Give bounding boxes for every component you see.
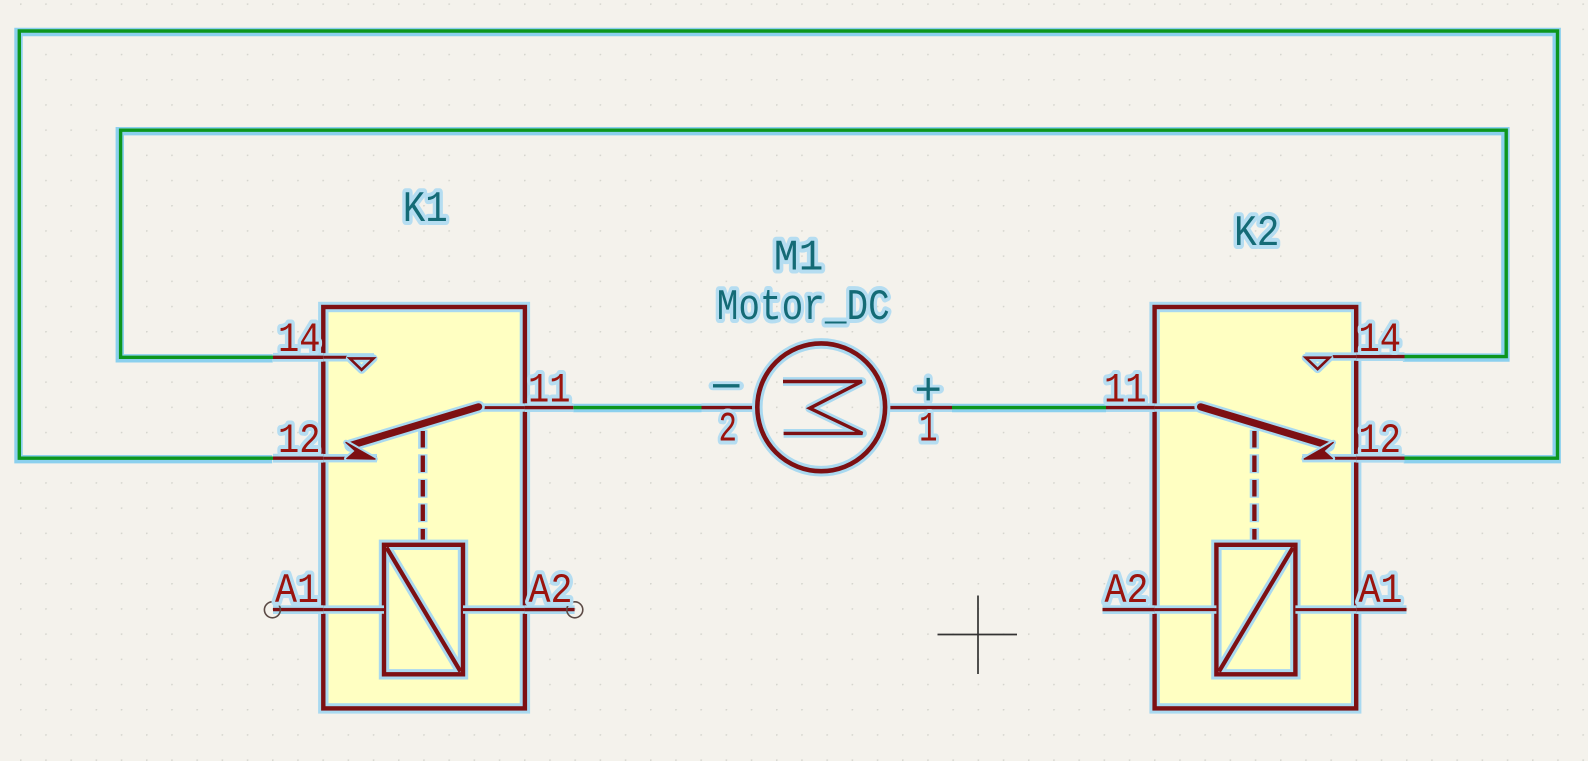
wire outer loop: K1 pin12 - left side - top - right side - K2 pin12 <box>19 31 1557 458</box>
relay K1 <box>264 185 582 709</box>
svg-text:14: 14 <box>1359 316 1402 364</box>
K2 pin A2 stub <box>1103 605 1155 614</box>
svg-text:M1: M1 <box>774 234 824 284</box>
K1 chevron contact mark <box>350 358 374 369</box>
wire K1 pin11 to motor pin2 <box>573 406 701 409</box>
svg-text:K1: K1 <box>403 185 448 235</box>
K1 mechanical link dashed line <box>418 430 427 545</box>
M1 minus sign <box>713 381 740 390</box>
K1 body <box>323 307 525 708</box>
svg-text:11: 11 <box>1104 367 1147 415</box>
svg-text:A1: A1 <box>1359 567 1403 615</box>
K2 mechanical link dashed line <box>1250 430 1259 545</box>
K1 unconnected pin circle A2 <box>567 602 583 618</box>
K1 pin 11 inner line <box>479 403 525 411</box>
K2 pin 14 stub <box>1356 352 1404 361</box>
K2 pin 12 stub <box>1356 454 1404 463</box>
K1 A-row inner lines <box>323 605 525 613</box>
M1 body circle <box>757 343 885 471</box>
wire motor pin1 to K2 pin11 <box>952 406 1106 409</box>
svg-text:14: 14 <box>278 316 321 364</box>
K2 chevron contact mark <box>1306 358 1330 369</box>
K1 pin 14 inner line <box>323 353 374 361</box>
wire inner loop halo <box>120 131 1506 358</box>
K1 pin 12 inner line <box>323 454 377 462</box>
K2 pin 14 inner line <box>1305 352 1356 360</box>
K2 switch arrowhead <box>1304 443 1333 460</box>
wire outer loop halo <box>19 32 1557 459</box>
svg-text:1: 1 <box>919 406 938 454</box>
K1 pin 12 stub <box>273 454 323 463</box>
K2 coil <box>1216 545 1295 675</box>
K1 switch arm <box>351 407 479 446</box>
K2 pin 12 inner line <box>1302 454 1356 462</box>
K2 pin A1 stub <box>1356 605 1406 614</box>
svg-text:12: 12 <box>1359 417 1402 465</box>
K1 pin 11 stub <box>525 403 573 412</box>
svg-text:K2: K2 <box>1234 209 1280 259</box>
wire motor-right halo <box>952 404 1106 412</box>
wire motor-left halo <box>573 404 701 412</box>
svg-text:2: 2 <box>719 406 738 454</box>
K2 pin 11 stub <box>1106 403 1155 412</box>
K2 body <box>1155 307 1357 708</box>
crosshair cursor <box>938 596 1018 675</box>
M1 pin 1 stub <box>886 403 952 412</box>
svg-text:A1: A1 <box>275 567 319 615</box>
K1 coil <box>384 545 463 675</box>
svg-text:Motor_DC: Motor_DC <box>717 283 890 333</box>
motor M1 <box>702 234 953 472</box>
wire inner loop: K1 pin14 - left - top - right - K2 pin14 <box>121 130 1507 357</box>
K2 A-row inner lines <box>1155 605 1357 613</box>
svg-text:12: 12 <box>278 417 321 465</box>
K2 body halo <box>1155 307 1357 708</box>
relay K2 <box>1103 209 1407 708</box>
M1 pin 2 stub <box>702 403 759 412</box>
K1 body halo <box>323 307 525 708</box>
svg-text:A2: A2 <box>529 567 573 615</box>
K2 pin 11 inner line <box>1155 403 1201 411</box>
K1 pin 14 stub <box>273 353 323 362</box>
M1 rotor M glyph <box>783 382 863 434</box>
K1 unconnected pin circle A1 <box>264 602 280 618</box>
K1 switch arrowhead <box>346 443 375 460</box>
K1 pin A2 stub <box>525 605 575 614</box>
K1 pin A1 stub <box>273 605 323 614</box>
svg-text:11: 11 <box>528 367 571 415</box>
M1 plus sign <box>917 378 940 401</box>
K2 switch arm <box>1201 407 1329 446</box>
svg-text:A2: A2 <box>1105 567 1149 615</box>
